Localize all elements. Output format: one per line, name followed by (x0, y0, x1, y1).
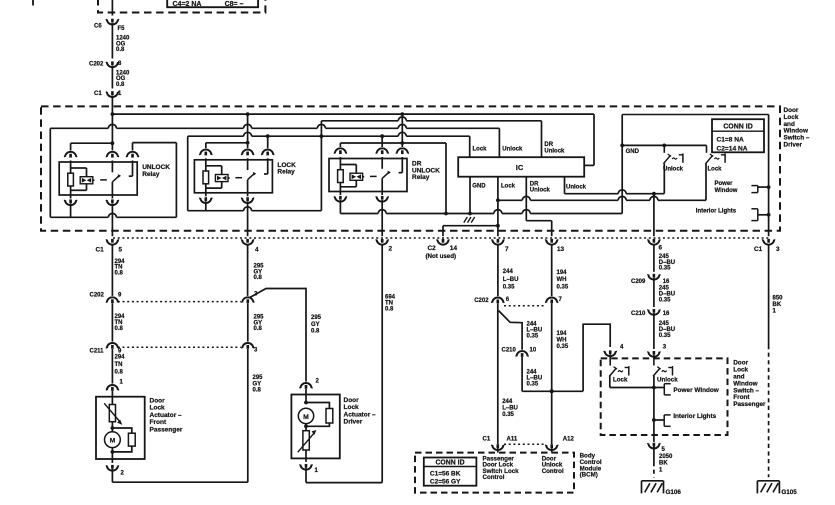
svg-text:Actuator –: Actuator – (150, 412, 183, 419)
svg-text:Lock: Lock (501, 183, 516, 189)
svg-text:Relay: Relay (277, 169, 295, 176)
svg-text:M: M (303, 414, 309, 421)
svg-text:C6: C6 (94, 23, 102, 29)
svg-text:C1=8 NA: C1=8 NA (717, 137, 745, 144)
svg-text:DR: DR (530, 182, 539, 188)
svg-text:Interior Lights: Interior Lights (673, 413, 716, 420)
svg-text:C210: C210 (502, 348, 517, 354)
svg-text:GND: GND (472, 183, 486, 189)
svg-text:C210: C210 (631, 311, 646, 317)
svg-text:850: 850 (773, 295, 784, 301)
svg-text:WH: WH (557, 337, 567, 343)
svg-text:2: 2 (389, 246, 393, 253)
svg-text:CONN ID: CONN ID (723, 124, 753, 131)
svg-text:3: 3 (776, 246, 780, 253)
svg-text:Relay: Relay (412, 174, 430, 181)
svg-text:DR: DR (544, 142, 553, 148)
svg-text:0.35: 0.35 (659, 297, 671, 303)
svg-text:2050: 2050 (659, 454, 673, 460)
svg-text:G106: G106 (666, 489, 682, 496)
svg-text:Passenger: Passenger (150, 427, 183, 434)
svg-text:0.8: 0.8 (311, 328, 320, 334)
svg-text:Control: Control (483, 474, 505, 481)
svg-text:GY: GY (253, 381, 262, 387)
svg-text:WH: WH (557, 277, 567, 283)
svg-text:(BCM): (BCM) (580, 472, 598, 479)
svg-text:0.8: 0.8 (385, 306, 394, 312)
svg-text:16: 16 (663, 311, 670, 317)
svg-text:Unlock: Unlock (530, 188, 551, 194)
svg-text:0.35: 0.35 (502, 412, 514, 418)
svg-text:C202: C202 (90, 293, 105, 299)
svg-text:7: 7 (505, 246, 509, 253)
svg-text:0.8: 0.8 (116, 47, 125, 53)
svg-text:0.8: 0.8 (116, 82, 125, 88)
svg-text:Front: Front (150, 419, 167, 426)
svg-text:Driver: Driver (344, 419, 363, 426)
svg-text:C4=2 NA: C4=2 NA (173, 1, 202, 8)
svg-text:C2=14 NA: C2=14 NA (717, 146, 748, 153)
svg-text:194: 194 (557, 270, 568, 276)
svg-text:Door: Door (344, 397, 360, 404)
svg-text:C1: C1 (94, 91, 102, 97)
svg-text:0.8: 0.8 (115, 370, 124, 376)
svg-text:Driver: Driver (784, 142, 803, 149)
svg-text:0.8: 0.8 (254, 275, 263, 281)
svg-text:0.8: 0.8 (115, 326, 124, 332)
svg-text:13: 13 (557, 246, 565, 253)
svg-text:BK: BK (659, 461, 668, 467)
svg-text:C1: C1 (754, 246, 763, 253)
svg-text:Power: Power (715, 181, 734, 187)
svg-text:Control: Control (542, 468, 564, 475)
svg-text:IC: IC (516, 163, 524, 172)
svg-text:14: 14 (450, 245, 458, 252)
svg-text:0.35: 0.35 (527, 333, 539, 339)
svg-text:Actuator –: Actuator – (344, 411, 377, 418)
svg-text:Passenger: Passenger (733, 401, 766, 408)
svg-text:GY: GY (311, 322, 320, 328)
svg-text:Lock: Lock (150, 405, 166, 412)
svg-text:0.35: 0.35 (503, 284, 515, 290)
svg-text:244: 244 (502, 399, 513, 405)
svg-text:F5: F5 (118, 26, 126, 32)
svg-text:244: 244 (503, 269, 514, 275)
svg-text:(Not used): (Not used) (426, 253, 457, 260)
svg-text:M: M (110, 438, 116, 445)
svg-text:L–BU: L–BU (502, 405, 518, 411)
svg-text:C2=56 GY: C2=56 GY (430, 478, 461, 485)
svg-text:10: 10 (530, 348, 537, 354)
svg-text:C1: C1 (483, 437, 491, 443)
svg-text:4: 4 (255, 246, 259, 253)
svg-text:0.35: 0.35 (527, 381, 539, 387)
svg-text:Lock: Lock (613, 376, 628, 383)
svg-text:0.8: 0.8 (254, 326, 263, 332)
svg-text:6: 6 (659, 244, 663, 251)
svg-text:Window: Window (715, 188, 738, 194)
svg-text:C8= –: C8= – (225, 1, 244, 8)
svg-text:0.8: 0.8 (115, 270, 124, 276)
svg-text:0.35: 0.35 (557, 284, 569, 290)
svg-text:0.8: 0.8 (253, 388, 262, 394)
svg-text:CONN ID: CONN ID (435, 460, 464, 467)
svg-text:Unlock: Unlock (663, 166, 684, 172)
svg-text:G105: G105 (781, 489, 797, 496)
svg-text:BK: BK (773, 302, 782, 308)
svg-text:294: 294 (115, 354, 126, 360)
svg-text:C202: C202 (474, 298, 489, 304)
svg-text:Lock: Lock (708, 166, 723, 172)
svg-text:A11: A11 (507, 437, 518, 443)
svg-text:L–BU: L–BU (503, 277, 519, 283)
svg-text:C211: C211 (90, 348, 105, 354)
svg-text:16: 16 (663, 279, 670, 285)
svg-text:TN: TN (115, 362, 123, 368)
svg-text:C202: C202 (89, 62, 104, 68)
svg-text:Unlock: Unlock (657, 376, 678, 383)
svg-text:Lock: Lock (344, 404, 360, 411)
svg-text:C209: C209 (631, 279, 646, 285)
svg-text:194: 194 (557, 331, 568, 337)
svg-text:Unlock: Unlock (566, 184, 587, 190)
svg-text:Unlock: Unlock (544, 149, 565, 155)
svg-text:0.35: 0.35 (557, 344, 569, 350)
svg-text:0.35: 0.35 (659, 333, 671, 339)
svg-text:C1=56 BK: C1=56 BK (430, 470, 461, 477)
svg-text:Lock: Lock (473, 147, 488, 153)
svg-text:Interior Lights: Interior Lights (696, 209, 737, 215)
svg-text:Relay: Relay (142, 171, 160, 178)
svg-text:Power Window: Power Window (673, 387, 718, 394)
svg-text:Unlock: Unlock (502, 147, 523, 153)
svg-text:C1: C1 (96, 247, 105, 254)
svg-text:295: 295 (253, 375, 264, 381)
svg-text:Door: Door (150, 397, 166, 404)
svg-text:295: 295 (311, 315, 322, 321)
svg-text:C2: C2 (428, 245, 437, 252)
svg-text:0.35: 0.35 (659, 266, 671, 272)
svg-text:GND: GND (626, 149, 640, 155)
svg-text:A12: A12 (563, 437, 575, 443)
svg-text:5: 5 (119, 246, 123, 253)
